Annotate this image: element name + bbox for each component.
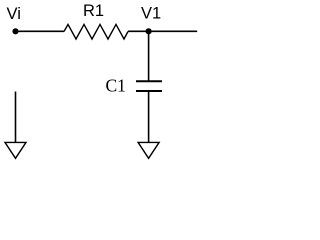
wire V1 down to capacitor: [148, 31, 150, 81]
node V1 junction dot: [146, 28, 152, 34]
capacitor C1 top plate: [136, 80, 162, 82]
ground left: [5, 142, 26, 158]
resistor R1 zigzag: [64, 24, 128, 39]
capacitor C1 bottom plate: [136, 90, 162, 92]
wire capacitor to right ground: [148, 91, 150, 142]
svg-text:C1: C1: [106, 76, 126, 96]
svg-text:V1: V1: [141, 5, 161, 23]
svg-text:R1: R1: [83, 2, 104, 20]
wire Vi to resistor: [16, 30, 65, 32]
svg-text:Vi: Vi: [7, 5, 21, 23]
node Vi junction dot: [12, 28, 18, 34]
wire left ground stub: [15, 92, 17, 143]
wire V1 to right edge: [149, 30, 198, 32]
wire resistor to node V1: [128, 30, 149, 32]
ground right: [138, 142, 159, 158]
